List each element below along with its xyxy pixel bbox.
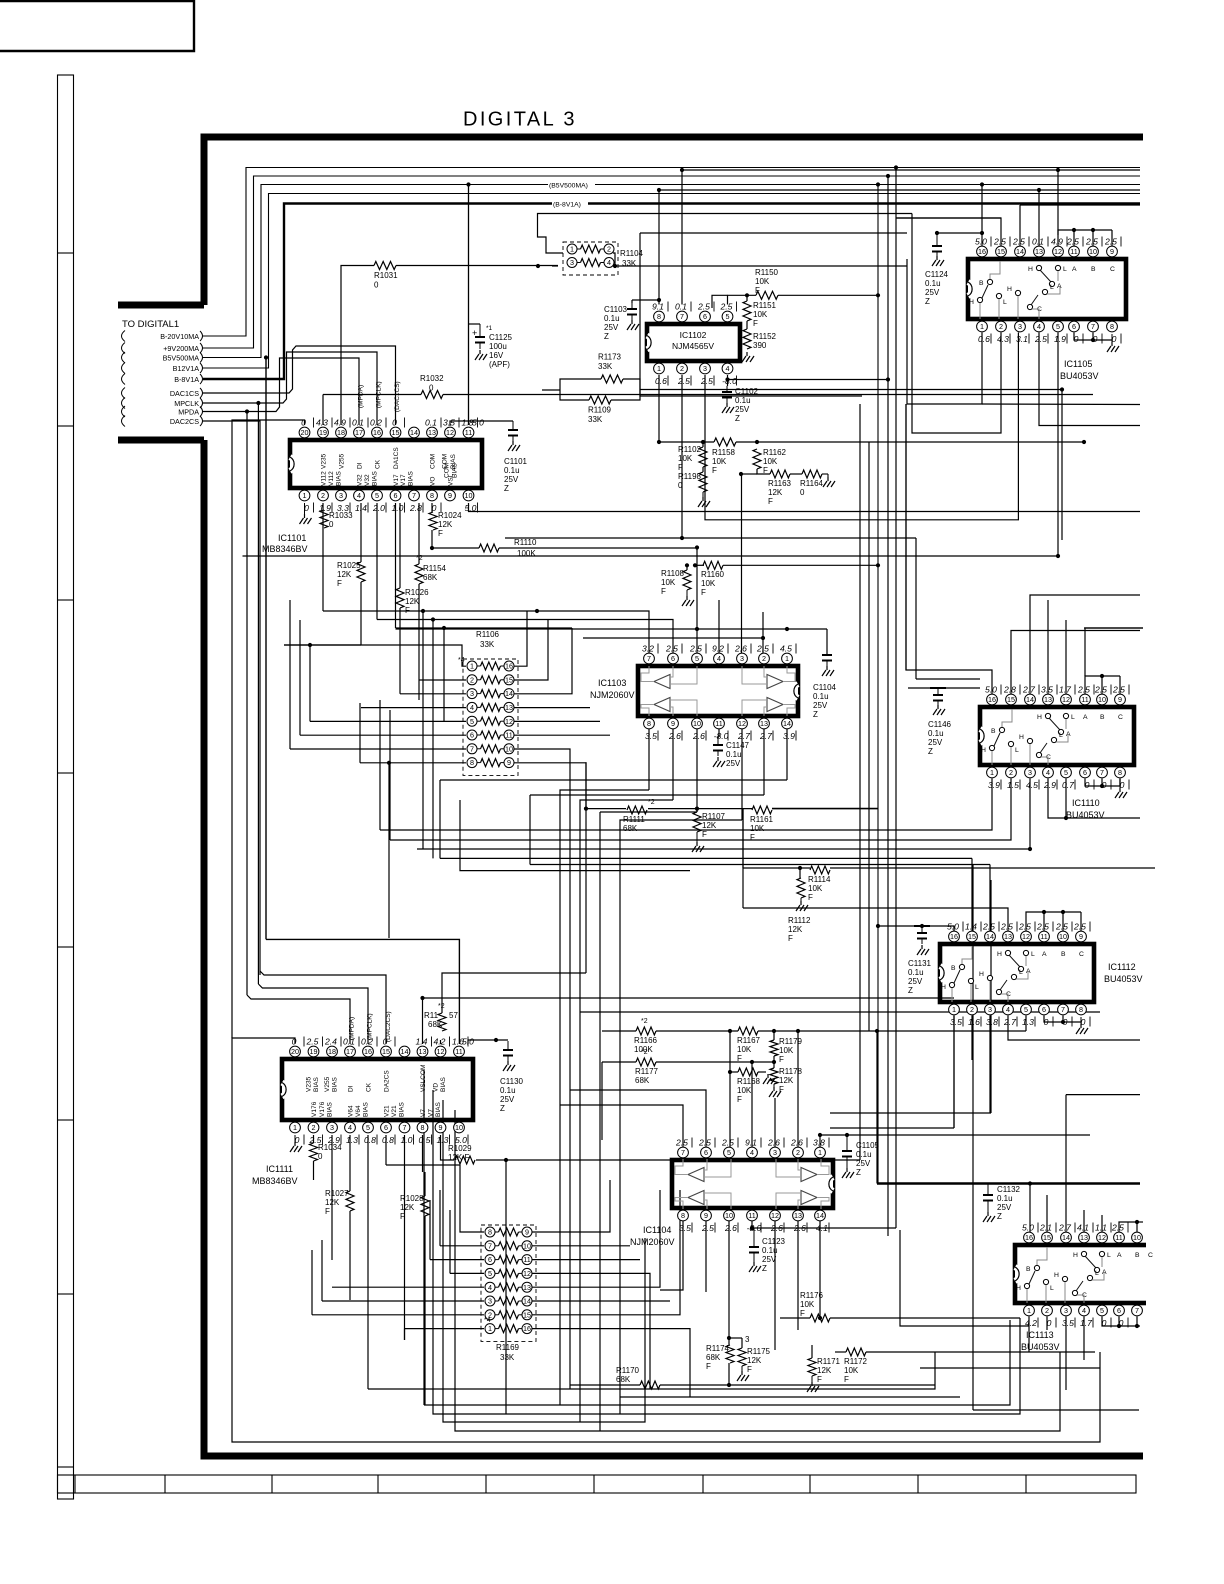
svg-text:R1163: R1163 [768,479,792,488]
svg-text:R1154: R1154 [423,564,447,573]
svg-text:B: B [1091,266,1096,273]
svg-text:12K: 12K [768,488,783,497]
svg-text:7: 7 [681,1148,685,1157]
svg-text:C: C [1118,714,1123,721]
wire IC1112 pins11-9 tie [1026,912,1081,920]
left ruler [58,75,74,1499]
svg-text:3.5: 3.5 [443,418,455,428]
svg-text:IC1102: IC1102 [680,330,707,340]
wire v877 low [876,1031,878,1184]
wire IC1105 pin14 up [1019,205,1021,247]
svg-text:25V: 25V [762,1255,777,1264]
svg-text:12K: 12K [400,1203,415,1212]
svg-text:F: F [779,1055,784,1064]
wire long h 556 [243,555,1059,557]
svg-text:10K: 10K [701,579,716,588]
resistor R1024 12K [429,512,437,530]
wire h1012 [580,1011,1100,1013]
svg-text:4: 4 [607,258,611,267]
svg-text:4: 4 [470,703,474,712]
svg-text:4.3: 4.3 [997,334,1009,344]
wire MPDA route [203,358,359,425]
svg-text:R1168: R1168 [737,1077,761,1086]
svg-text:BIAS: BIAS [435,1102,442,1117]
svg-text:1: 1 [570,245,574,254]
svg-text:F: F [702,830,707,839]
svg-text:R1025: R1025 [337,561,361,570]
svg-text:B-20V10MA: B-20V10MA [160,332,199,341]
wire v 695 [696,548,698,654]
wire pin8/R1024 [431,503,433,512]
svg-text:12K: 12K [788,925,803,934]
svg-text:R1166: R1166 [634,1036,658,1045]
svg-text:1.3: 1.3 [437,1135,449,1145]
svg-text:11: 11 [748,1211,755,1220]
svg-text:2.5: 2.5 [1094,685,1107,695]
wire IC1105 pin15 up [896,218,1001,247]
svg-text:33K: 33K [598,362,613,371]
svg-text:2.0: 2.0 [372,503,385,513]
svg-text:L: L [1059,732,1063,739]
svg-text:0.6: 0.6 [655,376,667,386]
svg-text:5: 5 [727,1148,731,1157]
ground IC1101 pin1 [304,503,306,514]
svg-text:C1103: C1103 [604,305,628,314]
wire R1173 left stub [542,389,560,391]
svg-text:5.0: 5.0 [1022,1223,1034,1233]
svg-text:Z: Z [500,1104,505,1113]
svg-text:1: 1 [657,364,661,373]
wire IC1110 pin13 riser [1047,600,1049,695]
svg-text:MB8346BV: MB8346BV [262,544,308,554]
wire R1171 col [811,1345,813,1358]
wire IC1110 bottom p1 [380,779,992,831]
wire R1172 line [835,1351,846,1353]
svg-text:11: 11 [1115,1233,1122,1242]
svg-text:14: 14 [1062,1233,1070,1242]
wire pin12 C1101 [450,421,513,426]
svg-text:2.5: 2.5 [756,644,769,654]
svg-text:0.1: 0.1 [352,418,364,428]
svg-text:2: 2 [762,654,766,663]
svg-text:NJM2060V: NJM2060V [590,690,635,700]
svg-text:3: 3 [330,1123,334,1132]
svg-text:B: B [979,280,984,287]
svg-text:15: 15 [523,1310,531,1319]
svg-text:V235: V235 [321,453,328,469]
wire R1108 top [686,565,688,570]
svg-text:0.1u: 0.1u [928,729,944,738]
svg-text:1.5: 1.5 [1007,780,1019,790]
svg-text:8: 8 [1079,1005,1083,1014]
wire staircase to IC1103 p5 [396,628,788,630]
resistor R1179 10K [770,1040,778,1056]
svg-text:7: 7 [412,491,416,500]
resistor R1107 12K [693,812,701,832]
wire R1151 chain [746,295,748,301]
svg-text:16: 16 [373,428,381,437]
svg-text:13: 13 [1035,247,1043,256]
svg-text:B12V1A: B12V1A [173,364,200,373]
svg-text:5: 5 [375,491,379,500]
svg-text:0: 0 [1102,780,1107,790]
wire C1104 lead [826,649,828,655]
wire h1390 [620,1396,960,1398]
svg-text:C1146: C1146 [928,720,952,729]
svg-text:F: F [678,463,683,472]
svg-text:16: 16 [978,247,986,256]
svg-text:4: 4 [1046,768,1050,777]
svg-text:2.6: 2.6 [692,731,705,741]
svg-text:12K: 12K [337,570,352,579]
svg-text:2: 2 [1045,1306,1049,1315]
wire IC1112 pin16 feed [953,926,955,932]
svg-text:1: 1 [980,322,984,331]
resistor R1114 10K [810,866,830,874]
svg-text:0: 0 [800,488,805,497]
svg-text:F: F [768,497,773,506]
wire R1111 line [586,808,626,810]
svg-text:7: 7 [488,1241,492,1250]
svg-text:F: F [701,588,706,597]
svg-text:12K: 12K [779,1076,794,1085]
svg-text:12K F: 12K F [448,1153,469,1162]
svg-text:5: 5 [488,1269,492,1278]
wire h 864 [529,795,531,865]
svg-text:BU4053V: BU4053V [1060,371,1099,381]
svg-text:7: 7 [647,654,651,663]
svg-text:R1173: R1173 [598,353,622,362]
wire h205 [1020,204,1140,206]
svg-text:R1026: R1026 [405,588,429,597]
svg-text:F: F [817,1375,822,1384]
svg-text:0.1u: 0.1u [726,750,742,759]
svg-text:2.5: 2.5 [1073,922,1086,932]
wire thick 1183 rail [877,1182,1140,1185]
svg-text:COM: COM [430,454,437,469]
svg-text:2: 2 [470,675,474,684]
svg-text:0: 0 [318,1152,323,1161]
resistor R1176 10K [810,1314,830,1322]
svg-text:11: 11 [1081,695,1088,704]
wire loop y1422 [443,1100,645,1422]
svg-text:1.3: 1.3 [1022,1017,1034,1027]
wire R1170 line [570,1384,640,1386]
svg-text:DA2CS: DA2CS [384,1070,391,1092]
svg-text:VSLCOM: VSLCOM [420,1065,427,1092]
svg-text:R1102: R1102 [678,445,702,454]
svg-text:5: 5 [695,654,699,663]
wire IC1113 pin14 up [1065,1233,1067,1239]
svg-text:IC1103: IC1103 [598,678,626,688]
svg-text:R1175: R1175 [747,1347,771,1356]
svg-text:10: 10 [725,1211,733,1220]
wire IC1105 pin4 down [1039,333,1140,426]
wire v774 segs [773,1031,775,1040]
svg-text:IC1101: IC1101 [278,533,306,543]
svg-text:F: F [737,1095,742,1104]
svg-text:0.2: 0.2 [370,418,382,428]
svg-text:2.8: 2.8 [409,503,422,513]
wire IC1104 bottom pins [660,1221,683,1291]
svg-text:H: H [997,951,1002,958]
svg-text:C1102: C1102 [735,387,759,396]
svg-text:0.1u: 0.1u [504,466,520,475]
svg-text:16: 16 [364,1047,372,1056]
wire IC1110 feeds nest2 [916,678,980,680]
svg-text:(DAC2CS): (DAC2CS) [385,1011,392,1042]
svg-text:Z: Z [856,1168,861,1177]
svg-text:V176: V176 [311,1101,318,1117]
svg-text:R1027: R1027 [325,1189,349,1198]
svg-text:DI: DI [348,1085,355,1092]
svg-text:R1106: R1106 [476,630,500,639]
svg-text:2.5: 2.5 [698,1138,711,1148]
svg-text:2.5: 2.5 [1012,237,1025,247]
wire loop y1389 [368,1352,935,1389]
resistor R1152 390 [743,329,751,349]
svg-text:Z: Z [735,414,740,423]
svg-text:L: L [1003,299,1007,306]
svg-text:4: 4 [348,1123,352,1132]
svg-text:10: 10 [1133,1233,1141,1242]
svg-text:*2: *2 [648,799,655,806]
wire IC1110 feeds nest1 [906,404,992,695]
svg-text:9: 9 [671,719,675,728]
svg-text:12: 12 [1098,1233,1106,1242]
wire R1104 loop top [538,214,913,254]
wire -8 line IC1104 [752,1227,896,1229]
svg-text:2.7: 2.7 [737,731,751,741]
svg-text:R1152: R1152 [753,332,777,341]
wire C1124 to IC1105 pin16 rail [937,233,982,247]
capacitor C1146 0.1u [937,688,939,695]
svg-text:25V: 25V [604,323,619,332]
svg-text:2: 2 [999,322,1003,331]
svg-text:6: 6 [1072,322,1076,331]
resistor R1161 10K [752,806,772,814]
resistor R1102 10K [699,447,707,467]
wire loop y1405 [423,1070,425,1405]
wire IC1111 p7 down [404,1135,406,1340]
svg-text:16: 16 [523,1324,531,1333]
svg-text:12K: 12K [438,520,453,529]
wire IC1105 loop to x640 [640,233,862,396]
svg-text:4.2: 4.2 [434,1037,446,1047]
net label B-8V1A [552,198,588,208]
svg-text:3: 3 [703,364,707,373]
op-amp internals IC1104 [672,1160,833,1208]
svg-text:R1109: R1109 [588,406,612,415]
svg-text:0: 0 [1119,1318,1124,1328]
wire IC1102 pin8 top [658,190,660,305]
svg-text:F: F [712,466,717,475]
capacitor C1147 0.1u [717,737,719,745]
svg-text:1.3: 1.3 [346,1135,358,1145]
svg-text:C: C [1148,1252,1153,1259]
svg-text:12: 12 [523,1269,531,1278]
resistor R1110 100K [479,544,499,552]
svg-text:2.7: 2.7 [1058,1223,1072,1233]
capacitor C1125 100u 16V [479,324,481,337]
svg-text:13: 13 [760,719,768,728]
svg-text:2.7: 2.7 [1003,1017,1017,1027]
svg-text:(MPDA): (MPDA) [349,1017,356,1040]
resistor R1162 10K [753,449,761,469]
svg-text:C1123: C1123 [762,1237,786,1246]
svg-text:L: L [1050,1285,1054,1292]
svg-text:R1114: R1114 [808,875,831,884]
svg-text:2.5: 2.5 [1000,922,1013,932]
svg-text:3.8: 3.8 [813,1138,825,1148]
wire h170 [682,169,1140,171]
svg-text:15: 15 [1043,1233,1051,1242]
svg-text:R1032: R1032 [420,374,444,383]
wire MPDA to IC1111 [247,995,350,1044]
svg-text:1: 1 [785,654,789,663]
wire v730 pin5 feed [729,1031,731,1072]
svg-text:13: 13 [419,1047,427,1056]
svg-text:H: H [1019,734,1024,741]
wire IC1102 pin7 top [681,170,683,305]
svg-text:0.7: 0.7 [1062,780,1075,790]
svg-text:6: 6 [1042,1005,1046,1014]
svg-text:10K: 10K [779,1046,794,1055]
svg-text:390: 390 [753,341,767,350]
wire h1094 to IC1113 [1066,1094,1140,1096]
resistor R1034 0 [310,1143,318,1161]
svg-text:5.0: 5.0 [462,1037,474,1047]
svg-text:3: 3 [488,1297,492,1306]
resistor R1173 33K [601,375,623,383]
svg-text:4: 4 [726,364,730,373]
svg-text:2.6: 2.6 [734,644,747,654]
ground R1152 [742,352,754,362]
svg-text:4.2: 4.2 [1025,1318,1037,1328]
svg-text:0: 0 [292,1037,297,1047]
svg-text:F: F [325,1207,330,1216]
svg-text:V235: V235 [306,1076,313,1092]
svg-text:2.1: 2.1 [1039,1223,1052,1233]
svg-text:6: 6 [488,1255,492,1264]
svg-text:2.5: 2.5 [701,1223,714,1233]
svg-text:10K: 10K [678,454,693,463]
svg-text:(APF): (APF) [489,360,510,369]
svg-text:2.5: 2.5 [721,1138,734,1148]
svg-text:3: 3 [1018,322,1022,331]
svg-text:R1160: R1160 [701,570,725,579]
svg-text:25V: 25V [735,405,750,414]
svg-text:0: 0 [1044,1017,1049,1027]
svg-text:16: 16 [505,662,513,671]
svg-text:4: 4 [357,491,361,500]
resistor R1166 100K [636,1027,656,1035]
svg-text:13: 13 [1044,695,1052,704]
svg-text:5: 5 [1024,1005,1028,1014]
wire R1169 right outs [528,1180,610,1232]
op-amp U IC1102 NJM4565V [647,324,740,361]
wire R1034 bottom [313,1161,315,1180]
svg-text:2.5: 2.5 [675,1138,688,1148]
svg-text:4: 4 [1037,322,1041,331]
svg-text:DI: DI [357,462,364,469]
analog switch U IC1105 BU4053V [968,259,1126,319]
svg-text:12: 12 [738,719,746,728]
wire long h 565 [695,564,704,566]
wire IC1113 p1 left [900,1230,1029,1326]
svg-text:2.5: 2.5 [982,922,995,932]
svg-text:C1125: C1125 [489,333,513,342]
svg-text:L: L [1019,969,1023,976]
svg-text:2: 2 [312,1123,316,1132]
svg-text:F: F [750,833,755,842]
svg-text:12K: 12K [747,1356,762,1365]
svg-text:0.1u: 0.1u [604,314,620,323]
wire v954 [953,1016,955,1129]
svg-text:8: 8 [1110,322,1114,331]
svg-text:2.5: 2.5 [1018,922,1031,932]
svg-text:2.5: 2.5 [697,302,710,312]
svg-text:33K: 33K [500,1353,515,1362]
svg-text:R1164: R1164 [800,479,824,488]
wire IC1111 p6 down [385,1135,387,1165]
svg-text:68K: 68K [616,1375,631,1384]
svg-text:6: 6 [704,1148,708,1157]
wire IC1113 pin13 up [1083,1210,1085,1233]
capacitor C1105 0.1u [846,1135,848,1151]
svg-text:*4: *4 [458,657,465,664]
svg-text:9: 9 [507,758,511,767]
wire C1125 tap [469,323,481,325]
wire MPCLK route [203,352,377,425]
svg-text:2.5: 2.5 [1034,334,1047,344]
svg-text:11: 11 [715,719,722,728]
svg-text:2.5: 2.5 [1055,922,1068,932]
svg-text:12: 12 [437,1047,445,1056]
svg-text:H: H [1007,286,1012,293]
svg-text:11: 11 [1040,932,1047,941]
analog switch U IC1113 BU4053V [1015,1245,1170,1303]
svg-text:V112: V112 [328,471,335,486]
wire v973 [972,865,974,1411]
svg-text:1: 1 [303,491,307,500]
svg-text:7: 7 [1061,1005,1065,1014]
svg-text:4: 4 [750,1148,754,1157]
svg-text:BU4053V: BU4053V [1104,974,1143,984]
svg-text:R1028: R1028 [400,1194,424,1203]
svg-text:R1112: R1112 [788,916,811,925]
wire h1128 [830,1127,954,1129]
wire v417 down [379,700,381,830]
wire h190 [659,189,1140,191]
wire h1113 [830,1112,991,1114]
wire drop 697col [600,811,697,813]
resistor R1154 68K [415,564,423,584]
svg-text:R1107: R1107 [702,812,726,821]
svg-text:25V: 25V [925,288,940,297]
svg-text:0: 0 [329,520,334,529]
wire C1131 rail [878,926,954,932]
svg-text:R1108: R1108 [661,569,685,578]
svg-text:2.5: 2.5 [1077,685,1090,695]
svg-text:3: 3 [773,1148,777,1157]
wire IC1104 top feeds [560,1105,683,1148]
svg-text:Z: Z [997,1212,1002,1221]
svg-text:2.5: 2.5 [1085,237,1098,247]
svg-text:R1174: R1174 [706,1344,730,1353]
svg-text:15: 15 [392,428,400,437]
svg-text:0: 0 [1047,1318,1052,1328]
